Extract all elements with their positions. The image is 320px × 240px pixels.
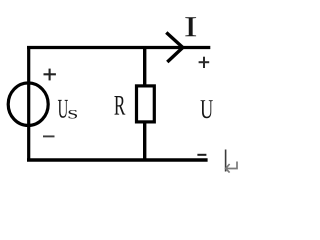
source polarity - [43, 135, 55, 137]
resistor R (rectangle) [137, 86, 155, 122]
current arrow I (on top wire) [166, 33, 183, 63]
wire: bottom (node b to port -) [27, 158, 208, 161]
port polarity + (top right) [199, 57, 210, 68]
label R [114, 96, 125, 115]
wire: left branch (through source) [27, 46, 30, 162]
wire: top (node a to port +) [27, 46, 210, 49]
text cursor bar [225, 150, 227, 172]
label U (port voltage) [200, 100, 212, 118]
label I [185, 17, 196, 36]
wire: resistor branch bottom [143, 122, 146, 162]
wire: resistor branch top [143, 46, 146, 86]
voltage source US (circle symbol) [8, 83, 48, 126]
port polarity - (bottom right) [197, 154, 206, 156]
label US [58, 100, 68, 118]
paragraph return mark [226, 162, 237, 173]
source polarity + [44, 69, 56, 81]
